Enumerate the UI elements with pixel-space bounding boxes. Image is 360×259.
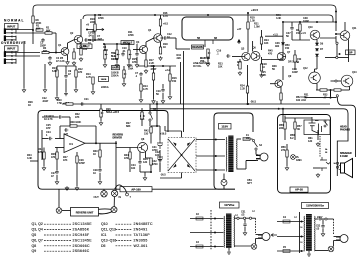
ground pot — [127, 63, 131, 67]
jack J2 overdrive input — [4, 51, 16, 64]
wire Q2 collector to rail — [80, 19, 82, 36]
wire C12 out — [167, 37, 176, 39]
resistor R2 — [45, 32, 52, 34]
svg-text:OVERDRIVE: OVERDRIVE — [1, 41, 27, 45]
svg-text:OUTPUT: OUTPUT — [79, 45, 90, 48]
wire R19 to Q5 collector — [247, 29, 249, 52]
wire feedback into input — [59, 126, 61, 139]
svg-text:R2768K: R2768K — [126, 122, 131, 128]
wire +36.5 feed — [156, 101, 158, 126]
svg-text:C23 R3110 4.7K: C23 R3110 4.7K — [44, 115, 54, 121]
wire R42 to supply node — [151, 125, 157, 127]
terminal output upper — [336, 42, 338, 44]
switch S2 — [149, 112, 153, 121]
jack label INPUT (overdrive) — [5, 46, 19, 52]
node base junction — [55, 52, 57, 54]
svg-text:C2747: C2747 — [51, 172, 56, 178]
svg-text:R368K: R368K — [43, 47, 48, 53]
pot label BASS boxed — [112, 66, 120, 70]
enclosure box main amp bottom — [38, 130, 235, 189]
svg-text:16: 16 — [300, 227, 303, 229]
wire into Q1 base — [58, 52, 61, 54]
svg-text:Q3: Q3 — [136, 41, 140, 44]
svg-text:O/P: O/P — [348, 51, 353, 54]
capacitor C5 — [91, 30, 94, 34]
node Q above board — [278, 108, 280, 110]
svg-text:C46400: C46400 — [275, 42, 280, 48]
node rail tap R19 — [247, 12, 249, 14]
legend transistor table left column — [32, 222, 93, 253]
svg-text:REVERB: REVERB — [192, 46, 203, 49]
wire R54 to Q13 — [341, 89, 350, 91]
svg-text:3A: 3A — [334, 162, 337, 165]
boxed label 117V — [220, 202, 240, 208]
transistor Q5 — [242, 52, 250, 60]
wire Q8 collector up — [150, 133, 152, 144]
capacitor C24 — [48, 137, 52, 140]
boxed label 115V — [219, 124, 232, 130]
capacitor C22 top — [58, 115, 62, 118]
diode chain D6 D7 D8 — [316, 43, 319, 56]
wire Q10 emitter to node — [320, 37, 336, 39]
svg-text:R333.3K: R333.3K — [27, 154, 32, 160]
wire lamp up — [333, 241, 335, 247]
wire T2 tap 3 — [190, 246, 224, 248]
resistor R6 — [80, 48, 82, 55]
resistor R55 — [294, 55, 296, 62]
wire T3 tap 3 — [277, 250, 304, 252]
jack J8 reverb unit plug — [111, 207, 117, 213]
enclosure box power section — [214, 113, 253, 189]
wire IC1 non-inverting input — [55, 147, 64, 149]
ground R59 — [285, 166, 289, 170]
svg-text:C1810: C1810 — [262, 63, 267, 69]
terminal footswitch — [126, 193, 129, 196]
svg-text:R44120: R44120 — [143, 158, 148, 164]
resistor R16b — [159, 19, 161, 26]
wire input feed vertical — [32, 9, 34, 30]
terminal speaker + — [336, 162, 338, 164]
node IC1 output — [95, 142, 97, 144]
transformer T2 core — [226, 214, 232, 249]
wire pot bottom — [116, 59, 118, 63]
wire pot top — [104, 44, 106, 50]
svg-text:2SC1345E: 2SC1345E — [73, 238, 93, 242]
lamp PL1 indicator — [291, 155, 296, 160]
wire T2 out top — [234, 217, 237, 219]
wire Q2 emitter down — [80, 43, 82, 48]
svg-text:AP-20: AP-20 — [295, 188, 303, 192]
node supply tap — [156, 103, 158, 105]
capacitor C1 — [48, 56, 51, 60]
wire Q3 collector — [145, 42, 147, 47]
svg-text:+1.5: +1.5 — [273, 34, 278, 37]
plug P2 — [258, 233, 270, 241]
svg-text:R38 100K: R38 100K — [70, 121, 81, 124]
wire reverb send to chassis — [115, 186, 117, 189]
legend transistor table right column — [101, 222, 153, 248]
svg-text:Q1: Q1 — [58, 44, 62, 47]
wire T3 tap 2 — [277, 236, 304, 238]
svg-text:R251.2K: R251.2K — [261, 71, 266, 77]
wire C11 drop — [136, 44, 138, 52]
wire box A to jack OUT — [103, 189, 105, 190]
ground C27 — [55, 180, 59, 184]
fuse F2 — [196, 217, 203, 220]
wire T3 boundary vertical — [299, 212, 301, 253]
svg-text:Q6: Q6 — [253, 47, 257, 50]
capacitor C26 — [64, 128, 68, 131]
svg-text:D5: D5 — [101, 244, 106, 248]
wire Q8 emitter to R44 — [146, 157, 152, 159]
supply arrow — [238, 40, 241, 44]
transistor Q9 — [275, 80, 283, 88]
ground T2 core — [227, 251, 231, 255]
svg-text:100KB220KA: 100KB220KA — [111, 72, 119, 78]
node rail2 tap — [154, 14, 156, 16]
transistor Q7 — [277, 52, 285, 60]
node top right junction B — [335, 21, 337, 23]
wire IC1 inverting input — [55, 138, 64, 140]
wire pot bottom — [128, 59, 130, 63]
wire bridge to filters — [165, 130, 182, 132]
resistor R22 — [260, 64, 262, 71]
enclosure box headphone board — [278, 115, 331, 194]
svg-text:Q11, Q12: Q11, Q12 — [101, 228, 116, 232]
capacitor C9 — [64, 74, 67, 78]
wire cluster top bus — [138, 65, 176, 67]
wire R16c top — [169, 66, 171, 74]
wire T2 tap 1 — [190, 218, 224, 220]
svg-text:SPEAKER8 OHM: SPEAKER8 OHM — [340, 152, 352, 158]
wire Q4 emitter down — [160, 42, 162, 47]
ground C9 — [64, 92, 68, 96]
wire arc to terminal — [115, 185, 127, 193]
wire S2 down — [149, 121, 151, 126]
jack J5 reverb out — [56, 208, 62, 214]
svg-text:R2310K: R2310K — [218, 63, 223, 69]
wire +41.5V top rail — [33, 5, 336, 22]
ground R12 — [74, 88, 78, 92]
svg-text:R5739: R5739 — [297, 125, 302, 131]
wire jack down — [317, 130, 319, 140]
node rail2 tap R10 — [94, 14, 96, 16]
ground R15b — [152, 99, 156, 103]
ground C51 — [243, 231, 247, 235]
transformer T2 secondary winding — [233, 216, 236, 248]
svg-text:-36.5: -36.5 — [160, 174, 166, 177]
node rail2 mid tap — [207, 14, 209, 16]
wire to Q11 base node — [335, 22, 337, 31]
wire lower row — [262, 59, 283, 61]
svg-text:R134.7K: R134.7K — [86, 73, 91, 79]
resistor R52 — [280, 93, 282, 100]
potentiometer tone 3 — [128, 50, 132, 59]
ground bottom box A — [65, 186, 69, 190]
svg-text:WZ-061: WZ-061 — [134, 244, 148, 248]
svg-text:R53.47: R53.47 — [323, 94, 328, 100]
terminal T2 a — [237, 217, 239, 219]
wire stub into box A — [30, 160, 38, 162]
bridge diode D3 — [173, 164, 176, 168]
wire output row right — [338, 57, 349, 59]
wire C6 to node — [88, 39, 95, 41]
bridge diode D4 — [187, 164, 190, 168]
plug P3 — [336, 235, 348, 243]
svg-text:R45470: R45470 — [268, 50, 273, 56]
wire lamp to plug — [255, 239, 257, 244]
svg-text:PL1893: PL1893 — [296, 156, 302, 162]
transistor Q1 — [61, 48, 69, 56]
wire +36.5V rail — [83, 15, 333, 22]
svg-text:Q8: Q8 — [141, 138, 145, 141]
wire bridge - output — [181, 173, 183, 179]
svg-text:D6: D6 — [320, 43, 324, 46]
wire speaker return — [313, 167, 320, 169]
ground C11 — [135, 63, 139, 67]
resistor R15b — [152, 73, 154, 80]
svg-text:5B: 5B — [197, 37, 200, 40]
svg-text:C1050: C1050 — [156, 90, 161, 96]
wire feedback up — [95, 126, 97, 143]
wire T3 right vertical — [333, 219, 335, 235]
wire to Q13 base terminal — [331, 80, 335, 82]
wire jack tip to node — [17, 29, 34, 31]
svg-text:C2547P: C2547P — [46, 124, 51, 130]
svg-text:VOL1MA: VOL1MA — [128, 65, 134, 71]
svg-text:Q5: Q5 — [241, 48, 245, 51]
wire Q11 collector up — [344, 22, 346, 31]
wire into board — [282, 115, 284, 122]
wire top bias — [42, 116, 58, 118]
svg-text:C5.04: C5.04 — [88, 32, 92, 38]
wire R19 feed — [247, 13, 249, 22]
node Q11 base net — [335, 33, 337, 35]
svg-text:2SA856K: 2SA856K — [73, 228, 90, 232]
transistor Q2 — [74, 35, 82, 43]
wire AC2 to transformer — [196, 169, 225, 171]
svg-text:S3: S3 — [259, 144, 263, 147]
wire terminal to Q13 base — [337, 80, 341, 82]
wire bias row — [292, 39, 310, 41]
wire C42 bottom — [159, 163, 161, 170]
wire T2 switch link — [255, 218, 257, 233]
wire emitter junction — [327, 89, 334, 91]
wire between terminals — [336, 44, 338, 56]
diode D5 — [282, 43, 285, 45]
wire down from output row — [348, 58, 350, 63]
wire down to master — [175, 38, 177, 49]
svg-text:R42150: R42150 — [144, 130, 149, 136]
wire pot top — [116, 44, 118, 50]
wire feedback top — [60, 125, 96, 127]
capacitor C32 — [158, 158, 161, 162]
wire tone bus top — [104, 43, 129, 45]
transistor Q10 — [310, 30, 320, 40]
wire shield ground run 1 — [23, 41, 25, 88]
ground R22 — [260, 73, 264, 77]
svg-text:Q1, Q2: Q1, Q2 — [32, 222, 43, 226]
wire input column — [41, 130, 43, 160]
reverb unit box — [71, 208, 99, 217]
svg-text:Q6, Q7: Q6, Q7 — [32, 238, 43, 242]
node supply junction — [156, 125, 158, 127]
terminal T3 a — [319, 218, 321, 220]
svg-text:REVERBDRIVER: REVERBDRIVER — [113, 134, 124, 140]
wire switch to plug — [255, 150, 257, 155]
wire R42 top — [150, 126, 152, 127]
wire reverb cable 2 — [99, 212, 113, 214]
ground pot — [115, 63, 119, 67]
resistor R17 — [145, 60, 147, 67]
resistor R4 — [32, 16, 34, 23]
resistor R36 — [56, 152, 58, 159]
wire jack ring — [17, 32, 46, 34]
ground R13b — [91, 90, 95, 94]
svg-text:R144.7K: R144.7K — [143, 85, 148, 91]
wire Q6 collector up — [261, 44, 263, 50]
svg-text:+8.5: +8.5 — [163, 23, 169, 26]
jack J1 normal input — [4, 28, 16, 41]
reverb tank outline — [182, 17, 233, 40]
wire into Q8 base — [116, 147, 138, 149]
potentiometer R26 volume — [100, 109, 104, 117]
bridge rectifier diagonals — [168, 139, 195, 171]
wire Q1 collector up — [67, 43, 69, 48]
svg-text:+27: +27 — [237, 28, 242, 31]
transistor Q11 — [340, 31, 350, 41]
wire feedback column lower — [247, 93, 249, 104]
capacitor C41 filter — [157, 140, 163, 149]
wire primary bottom — [237, 168, 247, 170]
svg-text:F12A: F12A — [246, 134, 250, 140]
svg-text:C7.047: C7.047 — [97, 35, 102, 41]
svg-text:R11470K: R11470K — [128, 31, 134, 37]
transistor Q8 — [138, 143, 148, 153]
terminal output lower — [336, 56, 338, 58]
resistor R5 — [73, 52, 75, 59]
wire Q11 emitter down — [348, 40, 350, 58]
svg-text:2SD666C: 2SD666C — [73, 244, 90, 248]
svg-text:Q3, Q4: Q3, Q4 — [32, 228, 43, 232]
svg-text:Q9: Q9 — [32, 249, 37, 253]
wire IC1 output — [85, 142, 100, 144]
svg-text:+9: +9 — [86, 23, 90, 27]
resistor R54 emitter — [334, 89, 341, 91]
svg-text:(+): (+) — [294, 217, 297, 219]
svg-text:R3747K: R3747K — [63, 156, 68, 162]
capacitor C10b — [161, 88, 164, 92]
svg-text:Q5: Q5 — [32, 233, 37, 237]
fuse F5 — [283, 250, 290, 253]
svg-text:R9470K: R9470K — [36, 19, 42, 25]
wire Q9 base left — [270, 83, 275, 85]
wire R10 down — [94, 31, 96, 40]
wire bridge + output — [181, 131, 183, 138]
thermal breaker CB1 — [221, 180, 227, 186]
resistor R27 — [141, 112, 143, 119]
resistor R10 — [94, 24, 96, 31]
wire C10b top — [162, 84, 164, 88]
wire to Q1 base — [49, 52, 58, 54]
svg-text:HEADPHONES: HEADPHONES — [340, 126, 351, 132]
svg-text:150Ω: 150Ω — [297, 58, 302, 64]
ground C28 — [98, 180, 102, 184]
svg-text:R56220: R56220 — [279, 124, 284, 130]
wire shield ground run 2 — [44, 64, 46, 88]
svg-text:R172.2K: R172.2K — [149, 59, 154, 65]
fuse F4 — [283, 220, 290, 223]
node reverb column tap — [115, 142, 117, 144]
svg-text:R2650KA +28.5: R2650KA +28.5 — [106, 108, 120, 114]
wire C7b to R14b — [140, 77, 142, 84]
wire reverb send — [115, 141, 117, 186]
svg-text:R168K: R168K — [36, 25, 41, 31]
jack J7 reverb in chassis — [111, 190, 117, 196]
svg-text:3A3B: 3A3B — [325, 148, 328, 154]
wire CT tap — [196, 155, 225, 157]
capacitor C27 — [55, 170, 58, 174]
svg-text:18: 18 — [300, 242, 303, 244]
wire T2 tap 2 — [190, 232, 224, 234]
resistor R3 — [42, 51, 49, 53]
terminal Q13 base — [335, 80, 337, 82]
svg-text:Q13: Q13 — [352, 71, 357, 74]
node input junction — [32, 29, 34, 31]
svg-text:Q10: Q10 — [308, 26, 313, 29]
fuse F1 — [243, 138, 250, 141]
wire pot top — [128, 44, 130, 50]
bridge diode D2 — [187, 142, 190, 146]
svg-text:R242.2K: R242.2K — [240, 85, 245, 91]
wire to breaker — [223, 174, 225, 180]
resistor R12 — [75, 70, 77, 77]
resistor R23 — [239, 62, 241, 69]
svg-text:Q7: Q7 — [287, 51, 291, 54]
svg-text:R61120: R61120 — [308, 137, 313, 143]
svg-text:2N3055: 2N3055 — [134, 238, 148, 242]
svg-text:Q11: Q11 — [352, 27, 357, 30]
potentiometer tone 2 — [116, 50, 120, 59]
ground below speaker jack — [316, 173, 320, 177]
transformer T1 secondary winding — [225, 137, 228, 171]
switch contact b — [324, 125, 326, 127]
svg-text:NORMAL: NORMAL — [4, 19, 25, 23]
wire C5 down — [92, 35, 94, 42]
wire speaker feed outer — [337, 97, 355, 157]
svg-text:(+): (+) — [252, 211, 255, 213]
wire Q1 emitter down — [67, 55, 69, 60]
svg-text:R3447K: R3447K — [38, 148, 43, 154]
boxed label MIDDLE — [121, 41, 134, 45]
svg-text:R291K: R291K — [28, 101, 33, 107]
resistor R53 emitter — [320, 89, 327, 91]
wire AC1 to transformer — [196, 139, 225, 141]
wire node down — [335, 36, 337, 42]
svg-text:C414700: C414700 — [152, 146, 158, 152]
svg-text:IN: IN — [119, 196, 122, 199]
op-amp IC1 — [64, 134, 85, 153]
wire C10b down — [162, 93, 164, 99]
svg-text:R3247K: R3247K — [75, 113, 80, 119]
wire switch blade — [325, 122, 328, 125]
capacitor C52 — [321, 224, 324, 228]
wire R15b down — [153, 80, 155, 99]
resistor R14b — [140, 84, 142, 91]
wire to Q12 base — [316, 62, 318, 69]
wire R56 to box top — [284, 116, 286, 119]
wire tank return long vertical — [183, 51, 185, 132]
